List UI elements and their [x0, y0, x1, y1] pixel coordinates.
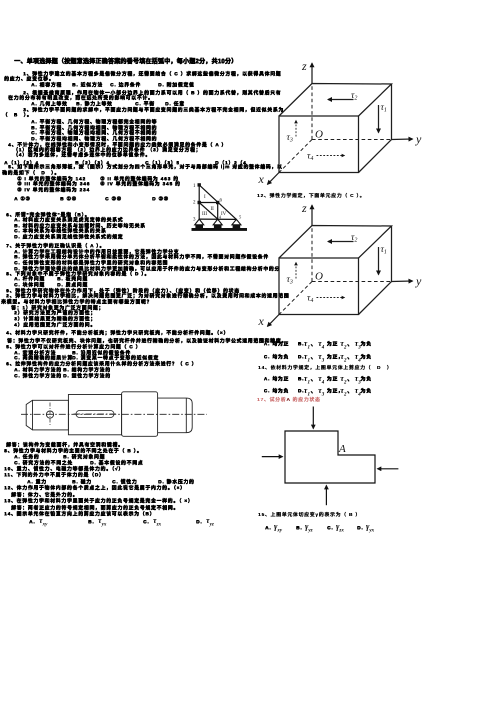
- hidden edge / y-axis dashed from O right: [312, 139, 392, 141]
- shaft section 1: [33, 400, 69, 430]
- hole vertical centerline: [49, 403, 51, 427]
- tau1 arrow: [378, 247, 380, 275]
- hole circle in section 1: [46, 411, 53, 418]
- right load arrow pointing left: [378, 468, 399, 470]
- node 1: [198, 183, 201, 186]
- hidden edge / z-axis dashed from O up: [311, 84, 313, 140]
- left load arrow pointing right: [262, 456, 283, 458]
- svg-text:τ3: τ3: [287, 275, 293, 286]
- svg-text:O: O: [315, 129, 323, 141]
- node 2: [198, 201, 201, 204]
- svg-text:τ2: τ2: [351, 91, 357, 102]
- svg-text:III: III: [202, 212, 207, 217]
- svg-text:5: 5: [239, 215, 242, 220]
- divider line before right cap: [185, 398, 187, 433]
- svg-text:τ1: τ1: [381, 245, 387, 256]
- gamma options row (question 15, right): [265, 526, 271, 531]
- cube front face: [279, 258, 359, 315]
- hidden edge / x-axis dashed from O to front-bottom-left: [279, 140, 312, 173]
- shaft section 2: [68, 395, 121, 435]
- svg-text:IV: IV: [221, 212, 227, 217]
- svg-text:τ1: τ1: [381, 103, 387, 114]
- member 1-5 diagonal: [199, 185, 236, 220]
- tau1 arrow on right face pointing down: [378, 105, 380, 133]
- cube front face: [279, 116, 359, 173]
- support triangle at node 4: [213, 219, 222, 225]
- svg-text:τ2: τ2: [351, 233, 357, 244]
- svg-text:2: 2: [193, 201, 196, 206]
- svg-text:z: z: [301, 59, 307, 73]
- svg-text:τ4: τ4: [307, 294, 313, 305]
- keyway slot: [76, 411, 114, 418]
- tau options row (question 14, left): [29, 520, 35, 525]
- z axis: [311, 205, 313, 225]
- tau2 arrow: [328, 241, 354, 243]
- bottom load arrow pointing up: [325, 486, 327, 506]
- left end cap chamfered: [26, 400, 32, 430]
- svg-text:3: 3: [193, 218, 196, 223]
- svg-text:6: 6: [220, 199, 223, 204]
- tau3 arrow dashed: [295, 263, 297, 279]
- svg-text:x: x: [258, 314, 265, 328]
- plate outline: [285, 431, 375, 483]
- z axis solid with arrow: [311, 63, 313, 83]
- svg-text:z: z: [301, 201, 307, 215]
- support triangle at node 5: [232, 219, 241, 224]
- cube top face: [279, 226, 392, 259]
- tau3 dashed arrow on left face pointing up: [295, 121, 297, 137]
- member 3-5 bottom chord: [199, 218, 236, 220]
- keyway centerline: [74, 413, 117, 415]
- member 2-4 diagonal: [199, 203, 218, 220]
- svg-text:y: y: [415, 132, 422, 146]
- svg-text:τ3: τ3: [287, 133, 293, 144]
- y axis solid with arrow: [392, 138, 413, 141]
- tau4 arrow dashed: [317, 297, 345, 299]
- node 6: [216, 201, 219, 204]
- hidden edges dashed: [311, 226, 313, 282]
- svg-text:I: I: [204, 195, 206, 200]
- tau4 dashed arrow on bottom pointing right: [317, 155, 345, 157]
- x axis solid with arrow: [268, 173, 280, 185]
- member 1-3 vertical: [198, 185, 200, 219]
- x axis: [268, 315, 280, 327]
- svg-text:1: 1: [193, 184, 196, 189]
- main centerline dash-dot: [21, 413, 207, 415]
- svg-text:x: x: [258, 172, 265, 186]
- svg-text:II: II: [211, 207, 215, 212]
- top load arrow pointing down: [312, 407, 314, 429]
- ground bar: [192, 228, 248, 231]
- member 2-6 horizontal: [199, 202, 218, 204]
- shaft section 4 with rounded right end: [158, 398, 193, 433]
- svg-text:A: A: [338, 443, 346, 455]
- svg-text:O: O: [315, 271, 323, 283]
- y axis: [392, 280, 413, 283]
- tau2 arrow on top face pointing left: [328, 99, 354, 101]
- member 6-4 vertical: [217, 203, 219, 220]
- cube right face: [359, 226, 392, 315]
- shaft section 3 (largest): [122, 392, 158, 437]
- cube right face: [359, 84, 392, 173]
- svg-text:τ4: τ4: [307, 152, 313, 163]
- cube top face: [279, 84, 392, 117]
- support triangle at node 3: [195, 219, 204, 225]
- svg-text:y: y: [415, 274, 422, 288]
